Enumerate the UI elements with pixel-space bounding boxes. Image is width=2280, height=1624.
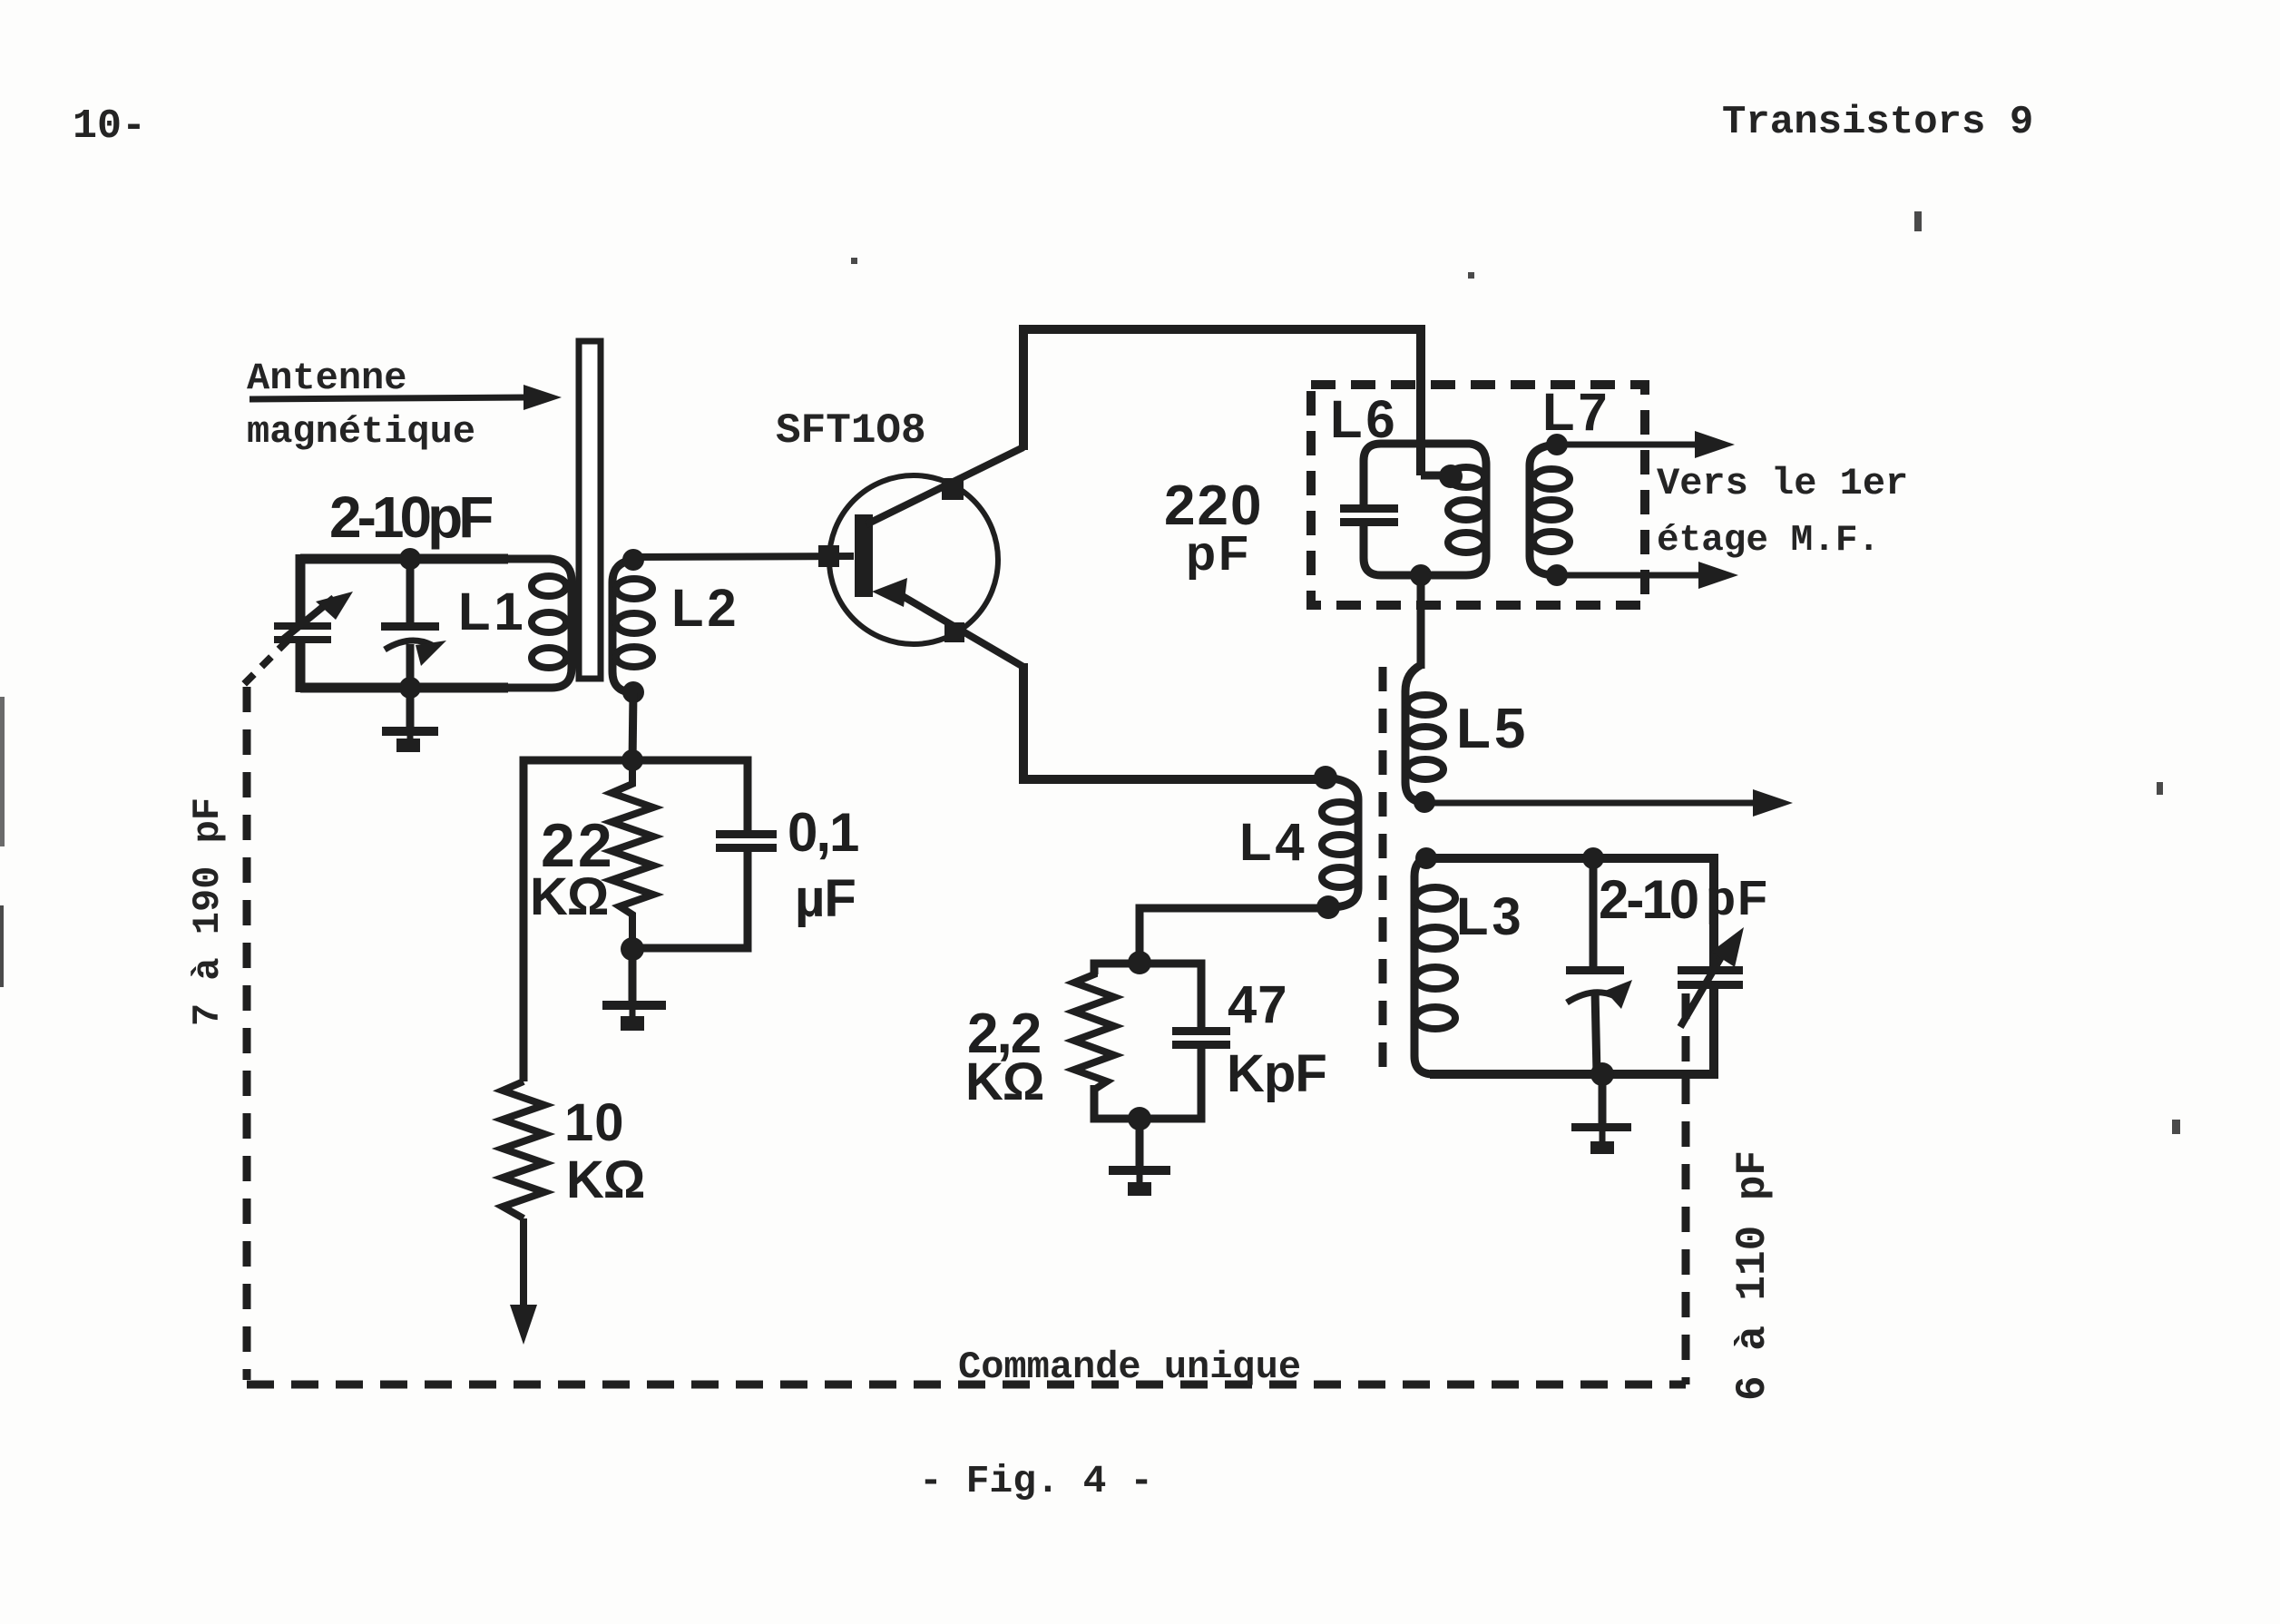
node: top junction of trimmer branch	[399, 548, 421, 570]
svg-text:L7: L7	[1542, 383, 1611, 442]
variable capacitor arrow	[279, 592, 353, 642]
node: L2 top (base wire)	[622, 549, 644, 571]
trimmer capacitor 2-10pF (top plate, stem)	[381, 559, 439, 688]
L1 tank: left vertical wire	[296, 554, 306, 692]
label 2,2 KOhm	[965, 1003, 1043, 1111]
node: L7 bottom	[1546, 564, 1568, 586]
svg-text:Commande unique: Commande unique	[958, 1345, 1301, 1389]
label 22 KOhm	[530, 811, 615, 926]
svg-text:2-10pF: 2-10pF	[329, 484, 492, 550]
svg-text:L4: L4	[1239, 813, 1308, 872]
page number 10-	[73, 103, 146, 150]
ground below bias network	[602, 949, 666, 1031]
svg-text:étage M.F.: étage M.F.	[1657, 520, 1880, 562]
caption - Fig. 4 -	[919, 1459, 1153, 1503]
capacitor 220pF plates	[1340, 504, 1398, 526]
svg-text:pF: pF	[1186, 526, 1251, 581]
label Antenne magnetique	[247, 357, 475, 454]
node: L2 bottom	[622, 681, 644, 703]
wire arrow: L7 top output	[1557, 431, 1735, 458]
svg-text:10: 10	[564, 1093, 625, 1152]
resistor 10 kOhm	[503, 1081, 544, 1218]
wire: emitter down and bus to L4	[1023, 663, 1323, 779]
label L1	[458, 582, 527, 641]
L6 tank top wire	[1364, 444, 1439, 508]
node: bias top junction	[621, 749, 643, 771]
svg-text:0,1: 0,1	[788, 802, 858, 863]
trimmer capacitor curved arrow	[385, 641, 446, 666]
dashed core line L4/L5-L3	[1379, 667, 1387, 1080]
svg-text:KpF: KpF	[1227, 1044, 1326, 1103]
variable capacitor 6-110pF plates (L3)	[1678, 966, 1743, 989]
label L3	[1456, 887, 1525, 946]
resistor 22 kOhm	[612, 760, 653, 949]
label L2	[671, 579, 740, 638]
node: bias bottom junction	[621, 937, 644, 961]
L1 tank: top wire	[300, 554, 508, 564]
L3 tank bottom wire	[1430, 984, 1714, 1074]
ground below L1 tank	[382, 688, 438, 752]
wire: L4 bottom to 2.2k network	[1140, 908, 1325, 958]
label SFT108	[776, 407, 926, 455]
node: network top junction	[1128, 951, 1151, 974]
svg-text:SFT1O8: SFT1O8	[776, 407, 926, 455]
coil L7	[1530, 445, 1570, 575]
L1 tank: bottom wire	[300, 683, 508, 693]
bias network top wire	[524, 760, 748, 764]
wire arrow: AGC output down	[510, 1218, 537, 1345]
scan specks	[0, 211, 2180, 1134]
label 6 a 110 pF (vertical)	[1729, 1150, 1776, 1401]
label 0,1 uF	[788, 802, 858, 928]
coil L1	[504, 559, 572, 688]
ferrite rod (magnetic antenna core)	[579, 341, 601, 679]
svg-text:L3: L3	[1456, 887, 1525, 946]
wire: collector up and top bus to L6	[1023, 329, 1421, 475]
capacitor 0,1 uF	[632, 760, 777, 948]
header Transistors 9	[1722, 100, 2033, 145]
coil L2	[612, 560, 652, 692]
coil L4	[1322, 778, 1358, 907]
svg-text:KΩ: KΩ	[566, 1150, 644, 1209]
svg-text:pF: pF	[1706, 871, 1769, 925]
dashed link: L3 variable cap to commande unique	[1682, 993, 1690, 1384]
label Commande unique	[958, 1345, 1301, 1389]
network bottom wire	[1094, 1049, 1201, 1119]
node: L5 bottom	[1414, 791, 1435, 813]
coil L5	[1405, 665, 1443, 802]
svg-text:KΩ: KΩ	[530, 867, 608, 926]
label 220 pF	[1164, 474, 1263, 581]
label 7 a 190 pF (vertical)	[186, 797, 230, 1026]
label L7	[1542, 383, 1611, 442]
wire arrow: L5 output	[1424, 789, 1793, 817]
ground below L3 tank	[1571, 1074, 1631, 1154]
2.2k/47KpF network top wire	[1094, 964, 1201, 1031]
label L5	[1456, 698, 1529, 760]
node: L6 bottom junction	[1410, 564, 1432, 586]
L6 tank bottom wire	[1364, 522, 1443, 575]
svg-text:10-: 10-	[73, 103, 146, 150]
variable capacitor arrow (L3)	[1680, 927, 1744, 1027]
wire: L6 bottom to L5	[1417, 575, 1425, 669]
L3 tank top wire	[1426, 858, 1714, 970]
wire: L2 bottom to bias network	[632, 692, 633, 764]
wire: bias left branch down to 10k	[520, 760, 528, 1081]
label 47 KpF	[1227, 975, 1326, 1103]
resistor 2.2 kOhm	[1074, 964, 1114, 1119]
dashed link: L1 variable cap to commande unique	[243, 640, 289, 1380]
svg-text:47: 47	[1228, 975, 1288, 1034]
svg-text:L5: L5	[1456, 698, 1529, 760]
node: bottom junction of trimmer branch	[399, 677, 421, 699]
node: L4 top	[1314, 766, 1337, 789]
node: L3 bottom junction	[1590, 1062, 1614, 1086]
svg-text:Vers le 1er: Vers le 1er	[1657, 462, 1908, 505]
svg-text:L2: L2	[671, 579, 740, 638]
node: L4 bottom	[1316, 895, 1340, 919]
svg-text:Transistors 9: Transistors 9	[1722, 100, 2033, 145]
node: collector tap on L6	[1421, 465, 1463, 488]
capacitor 47 KpF	[1172, 1027, 1230, 1049]
node: L3 top	[1415, 847, 1437, 869]
svg-text:- Fig. 4 -: - Fig. 4 -	[919, 1459, 1153, 1503]
svg-text:6 à 110 pF: 6 à 110 pF	[1729, 1150, 1776, 1401]
coil L6	[1439, 444, 1486, 575]
svg-text:µF: µF	[795, 869, 856, 928]
antenna arrow to ferrite rod	[250, 385, 562, 410]
trimmer capacitor 2-10pF (L3)	[1566, 858, 1632, 1074]
svg-text:magnétique: magnétique	[247, 410, 475, 454]
wire: base wire from L2 to transistor	[633, 556, 854, 557]
svg-text:KΩ: KΩ	[965, 1052, 1043, 1111]
ground below 2.2k network	[1109, 1119, 1170, 1196]
wire arrow: L7 bottom output	[1557, 562, 1738, 589]
label 2-10pF (L1 trimmer)	[329, 484, 492, 550]
svg-text:2-10: 2-10	[1599, 869, 1698, 930]
label L6	[1330, 390, 1399, 449]
transistor SFT108	[818, 447, 1023, 667]
label L4	[1239, 813, 1308, 872]
variable capacitor 7-190pF plates	[274, 622, 331, 643]
label Vers le 1er etage M.F.	[1657, 462, 1908, 562]
svg-text:Antenne: Antenne	[247, 357, 406, 400]
node: L7 top	[1546, 434, 1568, 455]
node: L3 top junction (trimmer branch)	[1582, 847, 1604, 869]
svg-text:L1: L1	[458, 582, 527, 641]
label 2-10 pF (L3)	[1599, 869, 1769, 930]
node: network bottom junction	[1128, 1107, 1151, 1130]
dashed wire: commande unique bus	[247, 1381, 1686, 1389]
coil L3	[1414, 858, 1455, 1074]
label 10 KOhm	[564, 1093, 644, 1209]
dashed box around L6/L7 (IF transformer)	[1311, 385, 1645, 605]
svg-text:7 à 190 pF: 7 à 190 pF	[186, 797, 230, 1026]
